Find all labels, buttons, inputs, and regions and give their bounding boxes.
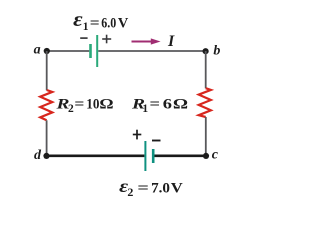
svg-text:ε: ε [73, 7, 83, 31]
svg-text:1: 1 [142, 103, 148, 115]
svg-text:2: 2 [68, 103, 74, 115]
resistor R1 [199, 88, 211, 117]
node a [34, 42, 50, 57]
wire a to E1 (top left segment) [47, 50, 90, 52]
wire R1 to c (right bottom segment) [205, 117, 207, 156]
svg-text:1: 1 [83, 21, 89, 33]
svg-text:2: 2 [127, 185, 133, 199]
svg-text:7.0: 7.0 [151, 180, 170, 196]
svg-text:6: 6 [163, 97, 172, 113]
value label R1 = 6 ohm [131, 97, 188, 115]
svg-text:=: = [137, 180, 149, 196]
svg-text:10: 10 [86, 97, 99, 113]
svg-text:=: = [90, 16, 100, 32]
svg-text:6.0: 6.0 [101, 16, 116, 32]
svg-text:=: = [74, 97, 84, 113]
node b [203, 43, 221, 58]
value label R2 = 10 ohm [55, 97, 113, 115]
battery E2 minus sign [152, 140, 161, 142]
svg-text:=: = [150, 97, 161, 113]
resistor R2 [40, 90, 52, 120]
battery E2 plus sign [133, 130, 142, 140]
svg-text:Ω: Ω [173, 97, 188, 113]
svg-text:V: V [171, 180, 183, 196]
svg-text:c: c [212, 148, 219, 163]
svg-text:Ω: Ω [99, 97, 113, 113]
current arrow I [132, 38, 161, 44]
wire a to R2 (left top segment) [46, 51, 48, 90]
wire b to R1 (right top segment) [205, 51, 207, 88]
svg-text:b: b [213, 43, 220, 58]
value label E2 = 7.0 V [119, 176, 183, 199]
node c [203, 148, 219, 163]
svg-text:I: I [167, 33, 175, 50]
wire E2 to c (bottom right segment) [154, 155, 206, 158]
wire R2 to d (left bottom segment) [46, 120, 48, 156]
battery E1 minus sign [80, 37, 87, 39]
value label E1 = 6.0 V [73, 7, 128, 33]
current label I [167, 33, 175, 50]
battery E2 [145, 141, 153, 171]
node d [34, 148, 50, 163]
svg-text:V: V [118, 16, 129, 32]
svg-text:a: a [34, 42, 41, 57]
wire E1 to b (top right segment) [98, 50, 205, 52]
battery E1 plus sign [102, 35, 111, 44]
wire d to E2 (bottom left segment) [47, 155, 145, 158]
svg-text:d: d [34, 148, 42, 163]
battery E1 [91, 35, 98, 67]
